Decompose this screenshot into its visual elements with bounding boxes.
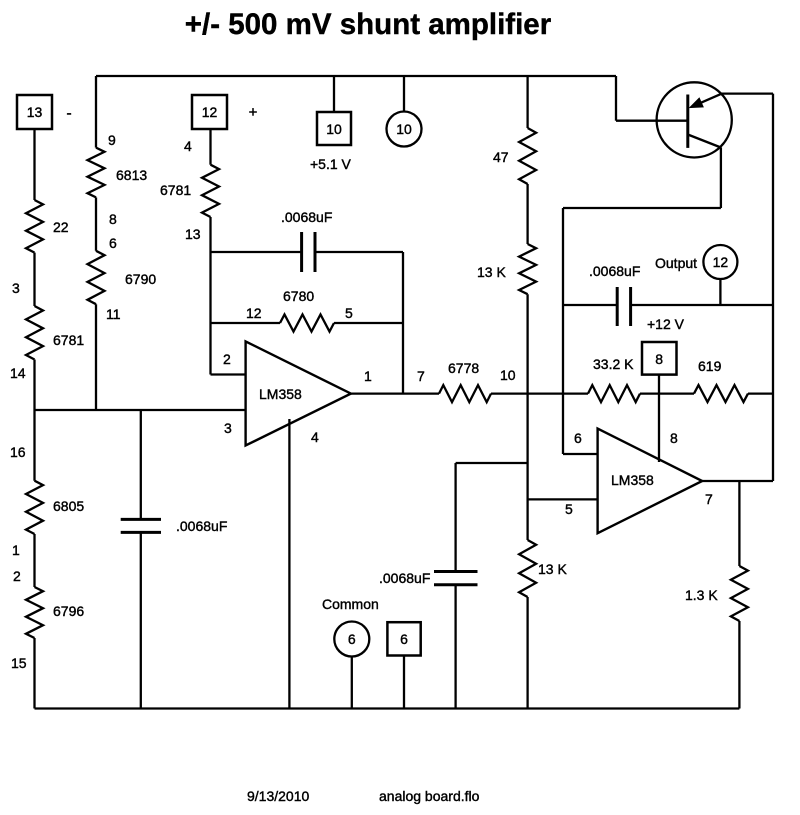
svg-text:13: 13 <box>27 104 43 120</box>
terminal circle 12 Output <box>703 245 737 279</box>
terminal box 10 <box>317 112 351 145</box>
svg-text:7: 7 <box>417 368 425 384</box>
wire pin 8 <box>658 375 660 462</box>
terminal box 6 <box>387 622 420 655</box>
svg-text:6781: 6781 <box>53 332 84 348</box>
wire pin 6 <box>563 453 598 455</box>
svg-text:.0068uF: .0068uF <box>281 209 332 225</box>
svg-text:LM358: LM358 <box>611 472 654 488</box>
wire <box>209 129 211 165</box>
transistor Q1 <box>657 82 732 157</box>
resistor 6796 <box>26 587 43 638</box>
svg-text:2: 2 <box>13 568 21 584</box>
svg-text:13 K: 13 K <box>538 561 567 577</box>
wire pin3 row <box>35 409 246 411</box>
wire <box>640 392 694 394</box>
wire <box>33 129 35 200</box>
wire <box>526 597 528 709</box>
wire <box>33 360 35 411</box>
wire <box>209 217 211 375</box>
wire <box>526 76 528 128</box>
svg-text:13: 13 <box>185 226 201 242</box>
wire <box>456 462 528 464</box>
svg-text:analog board.flo: analog board.flo <box>379 788 480 804</box>
svg-text:13 K: 13 K <box>477 264 506 280</box>
wire output <box>702 480 773 482</box>
op-amp U1 LM358 <box>246 341 351 445</box>
wire <box>491 392 588 394</box>
resistor 6780 <box>280 315 334 332</box>
wire <box>403 656 405 709</box>
wire emitter down right side <box>772 94 774 481</box>
svg-text:12: 12 <box>202 104 218 120</box>
resistor 22 <box>26 200 43 253</box>
wire <box>351 657 353 709</box>
svg-text:6780: 6780 <box>283 288 314 304</box>
svg-text:15: 15 <box>11 655 27 671</box>
svg-text:10: 10 <box>396 121 412 137</box>
terminal circle 10 <box>387 112 422 147</box>
svg-text:5: 5 <box>565 501 573 517</box>
wire <box>95 304 97 410</box>
svg-text:6: 6 <box>348 631 356 647</box>
svg-text:22: 22 <box>53 219 69 235</box>
wire <box>211 322 281 324</box>
wire <box>33 253 35 306</box>
svg-text:2: 2 <box>223 351 231 367</box>
resistor 619 <box>694 385 748 402</box>
wire <box>738 481 740 566</box>
svg-text:619: 619 <box>698 358 722 374</box>
wire collector jog <box>563 207 721 209</box>
wire <box>526 184 528 244</box>
svg-text:5: 5 <box>345 305 353 321</box>
svg-text:-: - <box>66 105 71 122</box>
wire <box>526 294 528 540</box>
resistor 13 K <box>519 540 536 597</box>
resistor 47 <box>519 128 536 184</box>
wire <box>748 392 773 394</box>
wire top +5.1V bus <box>96 75 616 77</box>
resistor 6805 <box>26 481 43 534</box>
wire <box>738 621 740 709</box>
terminal box 13 <box>17 95 52 129</box>
svg-text:10: 10 <box>500 367 516 383</box>
svg-text:LM358: LM358 <box>259 386 302 402</box>
svg-text:+/- 500 mV shunt amplifier: +/- 500 mV shunt amplifier <box>185 8 552 41</box>
svg-text:9: 9 <box>108 132 116 148</box>
svg-text:.0068uF: .0068uF <box>379 570 430 586</box>
svg-text:10: 10 <box>326 121 342 137</box>
resistor 13 K <box>519 244 536 294</box>
svg-text:Common: Common <box>322 596 379 612</box>
svg-text:3: 3 <box>12 280 20 296</box>
pin 5 wire <box>528 498 598 500</box>
svg-text:47: 47 <box>493 149 509 165</box>
resistor 6781 <box>26 306 43 360</box>
resistor 1.3 K <box>731 566 748 621</box>
resistor 6778 <box>439 385 491 402</box>
wire <box>33 638 35 709</box>
svg-text:3: 3 <box>224 420 232 436</box>
svg-text:6778: 6778 <box>448 360 479 376</box>
svg-text:8: 8 <box>655 351 663 367</box>
op-amp U2 LM358 <box>598 429 703 534</box>
svg-text:+: + <box>249 104 258 121</box>
wire <box>403 76 405 112</box>
svg-text:6790: 6790 <box>125 271 156 287</box>
wire <box>33 410 35 481</box>
svg-text:11: 11 <box>106 306 121 322</box>
emitter with arrow <box>693 94 721 106</box>
wire pin4 to ground bus <box>288 419 290 709</box>
resistor 33.2 K <box>588 385 640 402</box>
wire <box>719 279 721 305</box>
wire <box>333 76 335 112</box>
wire <box>95 197 97 250</box>
svg-text:14: 14 <box>10 365 26 381</box>
svg-text:12: 12 <box>713 254 729 270</box>
svg-text:6813: 6813 <box>116 167 147 183</box>
svg-text:6: 6 <box>109 235 117 251</box>
svg-text:6: 6 <box>400 631 408 647</box>
svg-text:1: 1 <box>364 368 372 384</box>
svg-text:6: 6 <box>574 430 582 446</box>
wire cap to output <box>402 252 404 394</box>
svg-text:9/13/2010: 9/13/2010 <box>247 788 309 804</box>
svg-text:4: 4 <box>184 138 192 154</box>
svg-text:+5.1 V: +5.1 V <box>310 156 352 172</box>
svg-text:8: 8 <box>670 430 678 446</box>
svg-text:33.2 K: 33.2 K <box>593 356 634 372</box>
svg-text:.0068uF: .0068uF <box>589 263 640 279</box>
wire pin2 <box>211 373 246 375</box>
wire ground bus <box>35 707 740 709</box>
wire <box>334 322 403 324</box>
terminal box 8 <box>642 342 677 375</box>
svg-text:1: 1 <box>12 542 20 558</box>
svg-text:6805: 6805 <box>53 498 84 514</box>
svg-text:1.3 K: 1.3 K <box>685 587 718 603</box>
resistor 6813 <box>88 148 105 198</box>
wire <box>33 534 35 587</box>
svg-text:7: 7 <box>705 491 713 507</box>
svg-text:8: 8 <box>109 211 117 227</box>
svg-text:6796: 6796 <box>53 603 84 619</box>
collector <box>688 135 721 148</box>
wire <box>140 410 142 519</box>
terminal circle 6 Common <box>334 622 369 657</box>
wire <box>95 76 97 148</box>
svg-text:16: 16 <box>10 444 26 460</box>
svg-text:6781: 6781 <box>160 182 191 198</box>
wire <box>351 392 439 394</box>
svg-text:.0068uF: .0068uF <box>176 518 227 534</box>
wire bus corner to transistor base <box>615 76 617 121</box>
svg-text:12: 12 <box>246 305 262 321</box>
svg-text:4: 4 <box>311 429 319 445</box>
svg-text:Output: Output <box>655 255 697 271</box>
resistor 6790 <box>88 251 105 304</box>
svg-text:+12 V: +12 V <box>647 316 685 332</box>
terminal box 12 <box>192 95 227 129</box>
resistor 6781 <box>202 165 219 217</box>
